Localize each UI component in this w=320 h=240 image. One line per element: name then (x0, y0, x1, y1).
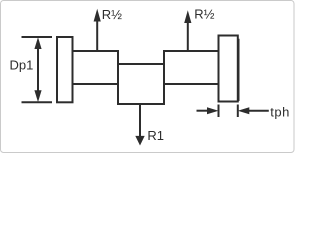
svg-text:R1: R1 (147, 128, 164, 143)
svg-text:R½: R½ (102, 7, 122, 22)
svg-text:tph: tph (270, 105, 290, 120)
svg-text:Dp1: Dp1 (10, 57, 34, 72)
svg-text:R½: R½ (194, 6, 214, 21)
